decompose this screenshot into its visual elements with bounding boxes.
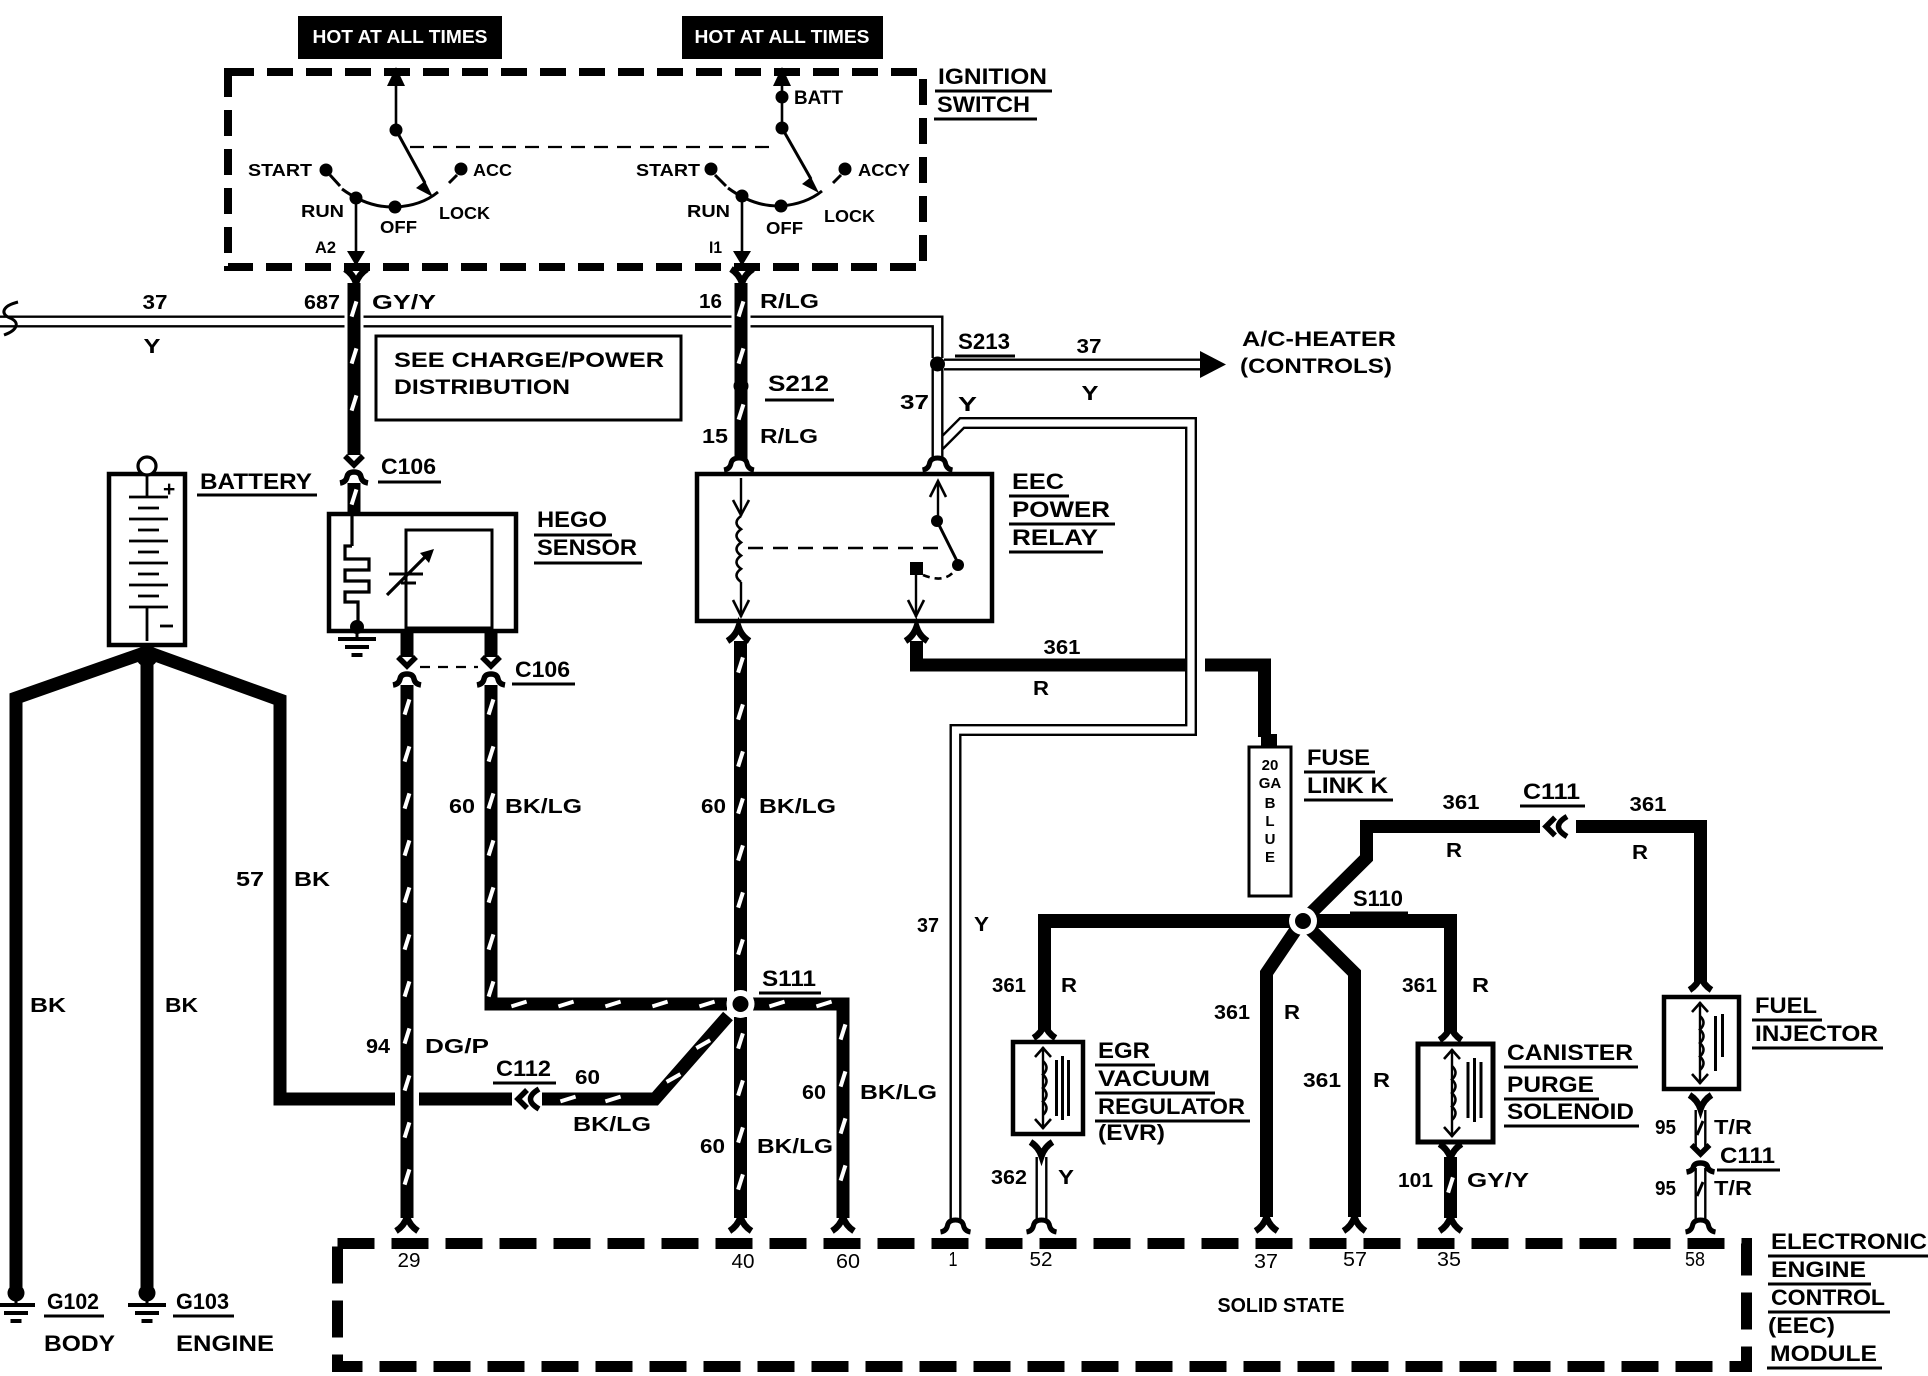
label LOCK switch B [824,206,875,226]
wire 60 BK/LG relay to S111 [738,641,743,995]
ground G102 [0,1285,35,1322]
svg-text:BK: BK [294,869,331,891]
pin 29 [398,1250,421,1272]
label 15 [702,426,728,448]
svg-text:57: 57 [236,869,264,891]
label Y below S213 [958,394,978,416]
pin 52 [1030,1249,1053,1271]
svg-text:FUSE: FUSE [1307,745,1370,770]
wire 15 R/LG S212 to EEC power relay [739,388,744,460]
arrow to A/C-heater [1200,351,1226,378]
wire 37 Y horizontal bus [0,322,938,359]
svg-text:29: 29 [398,1250,421,1272]
pin 37 [1254,1251,1278,1273]
label BK middle [165,995,199,1017]
wire 687 GY/Y C106 to HEGO sensor [352,483,357,516]
wire end pin 37 [1256,1217,1278,1231]
svg-text:60: 60 [802,1082,826,1104]
wire end pin 58 [1686,1220,1716,1232]
wire end pin 1 [941,1220,971,1232]
label S212 [765,371,834,400]
svg-text:S110: S110 [1353,886,1403,911]
label 361 pin57 wire [1303,1070,1341,1092]
ignition switch A detent arc [342,189,438,207]
connector above fuel injector [1690,976,1712,990]
svg-text:(EVR): (EVR) [1098,1120,1165,1145]
relay switch [908,481,964,617]
label 361 right of C111 [1630,794,1667,816]
ignition switch A pivot dot [390,124,403,137]
svg-text:ACC: ACC [473,160,512,180]
label 60 C112 wire [575,1067,600,1089]
label 94 [366,1036,391,1058]
svg-text:15: 15 [702,426,728,448]
label OFF switch B [766,218,803,238]
svg-text:361: 361 [1044,637,1081,659]
svg-text:361: 361 [1303,1070,1341,1092]
label SOLID STATE [1218,1295,1345,1317]
electronic engine control EEC module box [338,1244,1747,1367]
label 60 pin40 wire [700,1136,725,1158]
label C112 [493,1056,556,1083]
svg-text:ENGINE: ENGINE [176,1331,274,1356]
svg-text:SWITCH: SWITCH [937,92,1030,117]
wire 361 R relay to fuse link K [917,641,1265,737]
svg-text:R: R [1446,840,1463,862]
label Y pin1 wire [974,914,990,936]
ignition switch A OFF contact [389,201,402,214]
node S213 [930,357,945,372]
wire 60 BK/LG C112 to S111 [542,1016,728,1101]
svg-text:FUEL: FUEL [1755,993,1817,1018]
svg-text:BK: BK [30,995,67,1017]
wire 60 BK/LG S111 to EEC module pin 40 [738,1017,743,1218]
pin 1 [949,1249,958,1271]
ignition switch B START contact [705,163,727,187]
svg-text:95: 95 [1655,1178,1676,1200]
svg-text:E: E [1265,849,1275,866]
label 37 pin1 wire [917,915,939,937]
svg-text:58: 58 [1685,1249,1705,1271]
svg-text:IGNITION: IGNITION [938,64,1047,89]
svg-text:L: L [1265,813,1274,830]
svg-text:G103: G103 [176,1289,229,1314]
svg-text:HOT AT ALL TIMES: HOT AT ALL TIMES [313,27,488,47]
wire end pin 52 [1027,1220,1057,1232]
wire 101 GY/Y canister purge solenoid to EEC module pin 35 [1448,1157,1453,1218]
label S110 [1350,886,1408,913]
svg-text:BK/LG: BK/LG [759,796,836,818]
svg-text:INJECTOR: INJECTOR [1755,1021,1878,1046]
ignition switch A START contact [320,164,341,187]
svg-text:GA: GA [1259,775,1282,792]
svg-text:R: R [1472,975,1490,997]
svg-text:EEC: EEC [1012,469,1064,494]
svg-text:C111: C111 [1523,779,1580,804]
label R EVR wire [1061,975,1078,997]
svg-text:OFF: OFF [380,217,417,237]
svg-text:ENGINE: ENGINE [1771,1257,1866,1282]
label LOCK switch A [439,203,490,223]
wire 37 Y S213 down to EEC power relay [932,368,944,458]
wire battery negative to grounds (BK) [16,652,147,1288]
label 57 BK [236,869,331,891]
svg-text:GY/Y: GY/Y [1467,1170,1530,1192]
label 361 pin37 wire [1214,1002,1250,1024]
label GY/Y [372,292,437,314]
wire 361 R C111 to fuel injector [1576,827,1701,983]
svg-text:EGR: EGR [1098,1038,1150,1063]
label 362 [991,1167,1027,1189]
svg-text:CONTROL: CONTROL [1771,1285,1885,1310]
svg-text:SOLID STATE: SOLID STATE [1218,1295,1345,1317]
label FUSE LINK K [1304,745,1393,800]
connector below relay switch [906,627,928,641]
label ELECTRONIC ENGINE CONTROL (EEC) MODULE [1767,1229,1928,1368]
battery junction dot [136,645,158,667]
wire 361 R S110 junction arms [1045,826,1541,1217]
svg-text:S213: S213 [958,329,1010,354]
connector above canister [1440,1026,1462,1040]
svg-text:B: B [1265,795,1276,812]
label T/R upper [1714,1117,1753,1139]
node S212 [734,379,749,394]
svg-text:MODULE: MODULE [1770,1341,1877,1366]
svg-text:A2: A2 [315,238,336,257]
label R left of C111 [1446,840,1463,862]
svg-text:S212: S212 [768,371,829,396]
EEC power relay box [697,474,992,621]
label BK/LG HEGO wire [505,796,582,818]
EGR vacuum regulator EVR [1013,1042,1083,1134]
svg-text:35: 35 [1437,1249,1461,1271]
ignition switch B feed arrow BATT [773,67,791,94]
label BATTERY [197,469,317,495]
ignition switch B OFF contact [775,200,788,213]
label 16 [699,291,722,313]
svg-text:C106: C106 [381,454,436,479]
ignition switch B pivot dot [776,122,789,135]
hot at all times box 1 [298,16,502,59]
svg-text:Y: Y [1058,1167,1075,1189]
pin 35 [1437,1249,1461,1271]
label BK/LG C112 wire [573,1114,651,1136]
label C106 bottom [512,657,575,684]
svg-text:361: 361 [1214,1002,1250,1024]
label C111 fuse side [1520,779,1585,806]
svg-text:37: 37 [1077,336,1102,358]
pin 57 [1343,1249,1367,1271]
svg-text:BK/LG: BK/LG [505,796,582,818]
label I1 [709,238,722,257]
svg-text:R/LG: R/LG [760,426,818,448]
label Y bus [144,336,162,358]
label 361 left of C111 [1443,792,1480,814]
fuel injector [1664,997,1739,1089]
connector below ignition I1 [731,269,753,283]
svg-text:RUN: RUN [687,201,730,221]
label BK/LG pin40 wire [757,1136,833,1158]
svg-text:G102: G102 [47,1289,99,1314]
label C106 top [378,454,441,482]
svg-text:Y: Y [958,394,978,416]
svg-text:362: 362 [991,1167,1027,1189]
svg-text:C106: C106 [515,657,570,682]
label 60 pin60 wire [802,1082,826,1104]
label T/R lower [1714,1178,1753,1200]
svg-text:16: 16 [699,291,722,313]
svg-text:HEGO: HEGO [537,507,607,532]
svg-text:OFF: OFF [766,218,803,238]
label ACC switch A [473,160,512,180]
svg-text:Y: Y [974,914,990,936]
label EEC POWER RELAY [1009,469,1115,552]
svg-text:VACUUM: VACUUM [1098,1066,1210,1091]
connector below relay coil [728,627,750,641]
wire 95 T/R C111 to EEC module pin 58 [1697,1168,1703,1220]
svg-text:SOLENOID: SOLENOID [1507,1099,1634,1124]
svg-text:REGULATOR: REGULATOR [1098,1094,1245,1119]
svg-text:BATTERY: BATTERY [200,469,312,494]
svg-text:RUN: RUN [301,201,344,221]
label START switch B [636,160,700,180]
svg-text:R: R [1284,1002,1301,1024]
wire end pin 60 [832,1217,854,1231]
ignition switch A RUN contact [350,192,363,205]
wire end pin 35 [1440,1217,1462,1231]
svg-text:T/R: T/R [1714,1178,1753,1200]
svg-text:BK/LG: BK/LG [860,1082,937,1104]
svg-text:60: 60 [575,1067,600,1089]
svg-text:RELAY: RELAY [1012,525,1098,550]
wire end pin 29 [396,1217,418,1231]
connector below EVR [1031,1142,1053,1156]
ignition switch A output arrow A2 [347,203,365,266]
svg-text:BK/LG: BK/LG [757,1136,833,1158]
label R pin57 wire [1373,1070,1391,1092]
svg-text:Y: Y [1082,383,1100,405]
label R relay out [1033,678,1050,700]
label OFF switch A [380,217,417,237]
connector above EVR [1034,1024,1056,1038]
label C111 injector [1717,1143,1780,1170]
hot at all times box 2 [682,16,883,59]
svg-text:U: U [1265,831,1276,848]
svg-text:R/LG: R/LG [760,291,819,313]
svg-text:C111: C111 [1720,1143,1775,1168]
ignition switch linkage dashed line [410,146,778,148]
svg-text:ELECTRONIC: ELECTRONIC [1771,1229,1927,1254]
svg-text:361: 361 [1443,792,1480,814]
node break symbol left edge [4,302,18,335]
svg-text:37: 37 [900,392,929,414]
ground G103 [128,1285,166,1322]
label RUN switch A [301,201,344,221]
wire end pin 40 [730,1217,752,1231]
svg-text:R: R [1033,678,1050,700]
relay dashed link [748,547,938,549]
label BK/LG pin60 wire [860,1082,937,1104]
label G102 BODY [44,1289,115,1356]
connector C112 [518,1089,539,1109]
svg-text:60: 60 [449,796,475,818]
connector at relay pin 15 [724,458,754,470]
label RUN switch B [687,201,730,221]
node S110 [1289,907,1317,935]
svg-text:60: 60 [836,1251,860,1273]
label 361 relay out [1044,637,1081,659]
wire 362 Y EVR to EEC module pin 52 [1036,1157,1048,1220]
svg-text:PURGE: PURGE [1507,1072,1594,1097]
ignition switch B BATT dot [776,91,789,125]
svg-text:LOCK: LOCK [824,206,875,226]
label EGR VACUUM REGULATOR (EVR) [1095,1038,1250,1145]
svg-text:A/C-HEATER: A/C-HEATER [1242,328,1396,351]
ignition switch B RUN contact [736,190,749,203]
svg-text:BODY: BODY [44,1331,115,1356]
svg-text:101: 101 [1398,1170,1433,1192]
svg-text:HOT AT ALL TIMES: HOT AT ALL TIMES [695,27,870,47]
label S213 [955,329,1015,356]
label FUEL INJECTOR [1752,993,1883,1048]
svg-text:START: START [248,160,312,180]
label G103 ENGINE [173,1289,274,1356]
label 37 below S213 [900,392,929,414]
svg-text:361: 361 [1402,975,1437,997]
ignition switch A feed arrow [387,67,405,127]
svg-text:S111: S111 [762,966,816,991]
svg-text:Y: Y [144,336,162,358]
ignition switch B detent arc [728,188,822,206]
label 60 relay wire [701,796,726,818]
label HEGO SENSOR [534,507,642,563]
label 37 to AC [1077,336,1102,358]
svg-text:37: 37 [143,292,168,314]
relay coil [733,478,749,617]
node S111 [727,990,755,1018]
HEGO sensor ground [338,620,376,655]
ignition switch A ACC contact [449,163,468,184]
connector C106 battery feed [340,456,368,483]
svg-text:57: 57 [1343,1249,1367,1271]
wire 94 DG/P HEGO to EEC module pin 29 [396,631,418,1218]
pin 60 [836,1251,860,1273]
svg-text:(EEC): (EEC) [1768,1313,1835,1338]
label CANISTER PURGE SOLENOID [1504,1040,1639,1126]
wire 57 BK battery to C112 [147,652,512,1099]
label 60 HEGO wire [449,796,475,818]
connector C106 HEGO right [477,657,505,685]
label Y 362 [1058,1167,1075,1189]
svg-text:60: 60 [701,796,726,818]
svg-text:BATT: BATT [794,88,843,109]
svg-text:52: 52 [1030,1249,1053,1271]
svg-text:R: R [1632,842,1649,864]
label 361 canister wire [1402,975,1437,997]
svg-text:37: 37 [917,915,939,937]
pin 40 [732,1251,755,1273]
svg-text:DISTRIBUTION: DISTRIBUTION [394,376,570,399]
label Y to AC [1082,383,1100,405]
svg-text:95: 95 [1655,1117,1676,1139]
connector below canister [1440,1144,1462,1158]
wire 95 T/R fuel injector to C111 [1697,1110,1703,1148]
battery BAT [109,457,185,645]
svg-text:20: 20 [1262,757,1279,774]
wire 37 Y S213 to A/C-heater [944,359,1204,371]
svg-text:R: R [1373,1070,1391,1092]
label 687 [304,292,340,314]
connector C106 HEGO left [393,657,421,685]
label A2 [315,238,336,257]
svg-text:CANISTER: CANISTER [1507,1040,1633,1065]
connector below ignition A2 [345,269,367,283]
svg-text:361: 361 [992,975,1026,997]
fuse link K [1249,734,1291,896]
connector C111 fuel injector male [1692,1145,1710,1154]
svg-text:361: 361 [1630,794,1667,816]
label 95 lower [1655,1178,1676,1200]
svg-text:GY/Y: GY/Y [372,292,437,314]
svg-text:R: R [1061,975,1078,997]
label BATT [794,88,843,109]
svg-text:LINK K: LINK K [1307,773,1388,798]
label 95 upper [1655,1117,1676,1139]
svg-text:94: 94 [366,1036,391,1058]
canister purge solenoid [1418,1044,1493,1142]
ignition switch B output arrow I1 [733,202,751,266]
label 361 EVR wire [992,975,1026,997]
label IGNITION SWITCH [934,64,1052,119]
svg-text:I1: I1 [709,238,722,257]
label 101 [1398,1170,1433,1192]
label R/LG 16 [760,291,819,313]
label BK left [30,995,67,1017]
wire 60 BK/LG S111 to EEC module pin 60 [753,1002,845,1218]
svg-text:60: 60 [700,1136,725,1158]
label A/C-HEATER [1242,328,1396,351]
wire 37 Y branch to EEC module pin 1 [938,423,1205,1220]
label R/LG 15 [760,426,818,448]
svg-text:LOCK: LOCK [439,203,490,223]
connector at relay pin 37 [923,458,953,470]
svg-text:687: 687 [304,292,340,314]
svg-text:BK: BK [165,995,199,1017]
wire 60 BK/LG HEGO to S111 [489,631,727,1006]
connector below fuel injector [1690,1095,1712,1109]
connector C111 fuse side [1546,817,1567,837]
wire 16 R/LG ignition to S212 [739,283,744,392]
label GY/Y 101 [1467,1170,1530,1192]
pin 58 [1685,1249,1705,1271]
label R right of C111 [1632,842,1649,864]
svg-text:DG/P: DG/P [425,1036,489,1058]
ignition switch B wiper [782,128,819,193]
svg-text:C112: C112 [496,1056,551,1081]
svg-text:START: START [636,160,700,180]
svg-text:POWER: POWER [1012,497,1110,522]
svg-text:1: 1 [949,1249,958,1271]
label R pin37 wire [1284,1002,1301,1024]
svg-text:37: 37 [1254,1251,1278,1273]
connector C106 dashed pair link [420,666,478,668]
svg-text:BK/LG: BK/LG [573,1114,651,1136]
connector C111 fuel injector female [1687,1163,1715,1172]
label R canister wire [1472,975,1490,997]
label DG/P [425,1036,489,1058]
svg-text:(CONTROLS): (CONTROLS) [1240,355,1392,378]
wire end pin 57 [1344,1217,1366,1231]
